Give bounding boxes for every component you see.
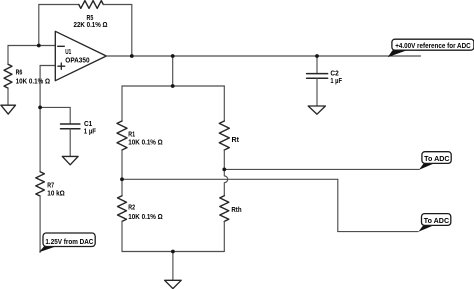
svg-text:+4.00V reference for ADC: +4.00V reference for ADC [395,43,471,50]
svg-text:R5: R5 [87,15,94,22]
wire R6 top lead [7,46,9,65]
svg-text:C2: C2 [330,70,338,77]
resistor R2 [118,196,127,222]
wire C1 bottom lead [69,129,71,157]
wire Rt bottom to node [223,150,225,169]
resistor R7 [36,172,45,196]
wire R1 top lead [121,86,123,121]
node minus input junction [37,44,41,48]
wire op-amp output [106,55,420,57]
svg-text:10 kΩ: 10 kΩ [47,191,65,198]
wire Rth bottom lead [223,221,225,251]
svg-text:OPA350: OPA350 [65,57,89,64]
node plus input junction [38,106,42,110]
wire C2 top lead [316,56,318,74]
svg-text:22K 0.1% Ω: 22K 0.1% Ω [74,22,108,29]
wire bridge top [122,85,224,87]
wire drop from output to bridge [172,56,174,86]
ground below R6 [1,105,16,114]
wire R2 bottom lead [121,221,123,251]
node output bridge junction [171,54,175,58]
svg-text:To ADC: To ADC [424,156,449,163]
node C2 junction [315,54,319,58]
net flag +4.00V reference for ADC [388,39,474,57]
wire bridge mid tap vertical [337,179,339,231]
svg-text:1.25V from DAC: 1.25V from DAC [45,239,93,246]
svg-text:C1: C1 [84,121,92,128]
svg-text:1 µF: 1 µF [330,78,342,85]
svg-text:10K 0.1% Ω: 10K 0.1% Ω [128,139,163,146]
wire ground stub [172,252,174,281]
resistor R6 [4,64,12,88]
wire non-inverting input [40,65,55,67]
wire bridge mid tap horizontal [122,178,338,180]
node bridge top junction [171,84,175,88]
capacitor C1 [61,124,80,129]
wire inverting input [8,45,55,47]
wire feedback left vertical [38,5,40,46]
svg-text:R6: R6 [16,69,23,76]
capacitor C2 [307,74,328,79]
node output feedback junction [130,54,134,58]
resistor Rt [219,121,229,150]
wire C2 bottom lead [316,78,318,106]
svg-text:Rt: Rt [232,137,240,144]
svg-text:R2: R2 [128,204,135,211]
svg-text:10K 0.1% Ω: 10K 0.1% Ω [16,78,51,85]
wire Rt tap to ADC [224,168,419,170]
wire top feedback horizontal left [39,4,79,6]
resistor R1 [117,121,127,150]
svg-text:To ADC: To ADC [424,218,449,225]
resistor Rth [220,196,229,222]
wire plus input vertical [39,66,41,108]
svg-text:10K 0.1% Ω: 10K 0.1% Ω [128,214,163,221]
op-amp minus symbol [58,45,65,47]
svg-text:Rth: Rth [231,207,241,214]
wire top feedback horizontal right [103,4,132,6]
wire feedback right vertical [131,5,133,57]
wire C1 top lead [69,107,71,124]
wire Rt top lead [223,86,225,121]
net flag To ADC upper [419,152,451,170]
svg-text:R7: R7 [47,183,54,190]
svg-text:R1: R1 [128,131,135,138]
op-amp U1 [55,31,106,80]
svg-text:U1: U1 [65,49,71,56]
wire bridge mid tap to ADC [338,231,418,233]
wire bridge bottom [122,251,224,253]
wire to C1 [40,106,70,108]
svg-text:1 µF: 1 µF [84,128,97,135]
net flag 1.25V from DAC [39,233,95,252]
node bottom ground junction [171,250,175,254]
ground below bridge [165,280,182,288]
node bridge mid junction [120,177,124,181]
net flag To ADC lower [418,214,450,232]
wire hop over tap wire [224,169,227,195]
ground below C2 [308,106,325,114]
wire R6 bottom lead [7,88,9,105]
wire R7 bottom lead to DAC label [39,196,41,252]
node Rt bottom junction [222,168,226,172]
resistor R5 [79,1,104,9]
wire R7 top lead [39,107,41,171]
ground below C1 [62,156,78,164]
wire R1 bottom to R2 top [121,150,123,196]
op-amp plus symbol [58,63,65,69]
